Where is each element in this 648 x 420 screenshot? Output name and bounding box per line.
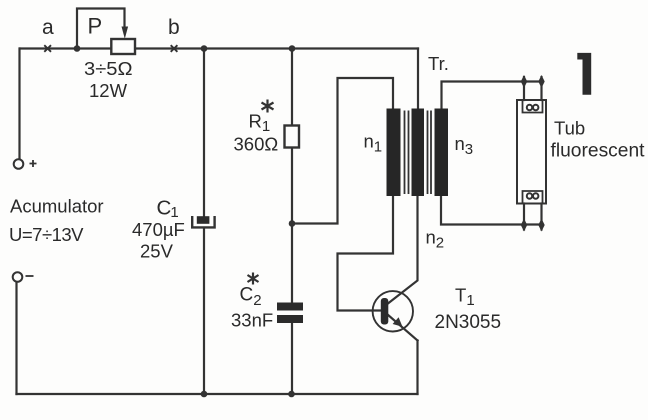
capacitor C1 plate blob bbox=[197, 216, 210, 224]
tube top filament loops bbox=[527, 105, 532, 110]
wire tube top left drop bbox=[523, 77, 525, 100]
wire emitter diagonal bbox=[388, 315, 418, 341]
transistor T1 base bar bbox=[381, 298, 389, 325]
svg-text:3÷5Ω: 3÷5Ω bbox=[84, 58, 133, 79]
svg-text:Tr.: Tr. bbox=[428, 53, 449, 74]
node tube bottom left diamond bbox=[521, 219, 527, 232]
wire bottom rail bbox=[17, 393, 418, 395]
wire R1 bottom to C2 top bbox=[291, 148, 293, 303]
svg-text:Tub: Tub bbox=[554, 118, 585, 139]
node tube bottom right diamond bbox=[538, 219, 544, 232]
wire C2 bottom to bottom rail bbox=[291, 323, 293, 394]
node tube top left diamond bbox=[521, 75, 527, 88]
tube bottom filament loops bbox=[527, 193, 532, 198]
transistor T1 circle bbox=[373, 291, 413, 331]
tube bottom filament box bbox=[523, 191, 543, 203]
resistor R1 body bbox=[285, 126, 300, 148]
wire n2 bottom to collector bbox=[388, 196, 418, 304]
battery - terminal bbox=[13, 272, 23, 282]
transformer winding n3 bar bbox=[435, 109, 449, 197]
svg-text:b: b bbox=[168, 16, 180, 39]
svg-text:25V: 25V bbox=[140, 241, 174, 262]
node pot junction dot bbox=[74, 45, 81, 52]
potentiometer P bypass wire and wiper bbox=[77, 9, 125, 49]
figure number 1 bbox=[577, 53, 591, 95]
capacitor C2 asterisk bbox=[248, 273, 259, 285]
battery + terminal bbox=[14, 159, 24, 169]
svg-text:360Ω: 360Ω bbox=[234, 134, 279, 155]
capacitor C2 top plate bbox=[277, 303, 303, 311]
svg-text:U=7÷13V: U=7÷13V bbox=[9, 224, 84, 245]
wire tube bottom left drop bbox=[523, 204, 525, 230]
node b cross mark bbox=[171, 45, 178, 52]
svg-text:n1: n1 bbox=[364, 131, 383, 156]
transformer core lines right pair bbox=[428, 111, 432, 195]
fluorescent tube outline bbox=[517, 100, 546, 204]
node a cross mark bbox=[44, 45, 51, 52]
svg-text:12W: 12W bbox=[89, 80, 128, 101]
node top rail C1 junction dot bbox=[201, 45, 208, 52]
svg-text:n3: n3 bbox=[455, 133, 474, 158]
battery - sign bbox=[26, 275, 34, 277]
svg-text:n2: n2 bbox=[426, 227, 445, 252]
svg-text:fluorescent: fluorescent bbox=[551, 140, 646, 162]
svg-text:C2: C2 bbox=[240, 285, 262, 310]
svg-text:a: a bbox=[42, 16, 54, 39]
wire n3 top to tube bbox=[442, 82, 542, 110]
node R1C2 midpoint junction dot bbox=[289, 220, 296, 227]
wire left vertical to + terminal bbox=[18, 49, 20, 159]
wire tube top right drop bbox=[540, 77, 542, 100]
node top rail R1 junction dot bbox=[289, 45, 296, 52]
node tube top right diamond bbox=[538, 75, 544, 88]
wire C1 branch lower bbox=[203, 228, 205, 394]
tube top filament box bbox=[523, 101, 543, 113]
wire n2 top stub from top rail bbox=[417, 49, 419, 110]
wire tube bottom right drop bbox=[540, 204, 542, 230]
potentiometer P wiper arrowhead bbox=[122, 27, 129, 39]
wire top rail bbox=[20, 47, 418, 49]
wire - terminal to bottom rail bbox=[15, 282, 17, 394]
svg-text:P: P bbox=[88, 14, 103, 39]
wire R1 branch top bbox=[291, 49, 293, 126]
transformer winding n1 bar bbox=[387, 109, 401, 197]
transformer core lines left pair bbox=[405, 111, 409, 195]
svg-text:C1: C1 bbox=[157, 197, 179, 222]
svg-text:T1: T1 bbox=[455, 285, 475, 310]
svg-text:470µF: 470µF bbox=[132, 219, 185, 240]
svg-text:R1: R1 bbox=[249, 111, 271, 136]
capacitor C2 bottom plate bbox=[277, 315, 303, 323]
potentiometer P body bbox=[111, 39, 135, 54]
resistor R1 asterisk bbox=[262, 100, 274, 113]
capacitor C1 cup bbox=[192, 216, 214, 227]
wire node R1C2 junction to n1 top bbox=[292, 78, 393, 224]
wire n3 bottom to tube bottom bbox=[441, 196, 542, 225]
svg-text:Acumulator: Acumulator bbox=[10, 196, 104, 217]
wire emitter vertical to bottom rail bbox=[416, 341, 418, 395]
svg-text:33nF: 33nF bbox=[231, 310, 273, 331]
wire C1 branch upper bbox=[203, 49, 205, 221]
battery + sign bbox=[30, 160, 37, 167]
node bottom rail C2 junction dot bbox=[288, 391, 295, 398]
transistor T1 emitter arrowhead bbox=[393, 317, 403, 327]
transformer winding n2 bar bbox=[412, 109, 425, 197]
wire n1 bottom to transistor base bbox=[338, 196, 394, 311]
node bottom rail C1 junction dot bbox=[201, 391, 208, 398]
svg-text:2N3055: 2N3055 bbox=[435, 312, 502, 333]
